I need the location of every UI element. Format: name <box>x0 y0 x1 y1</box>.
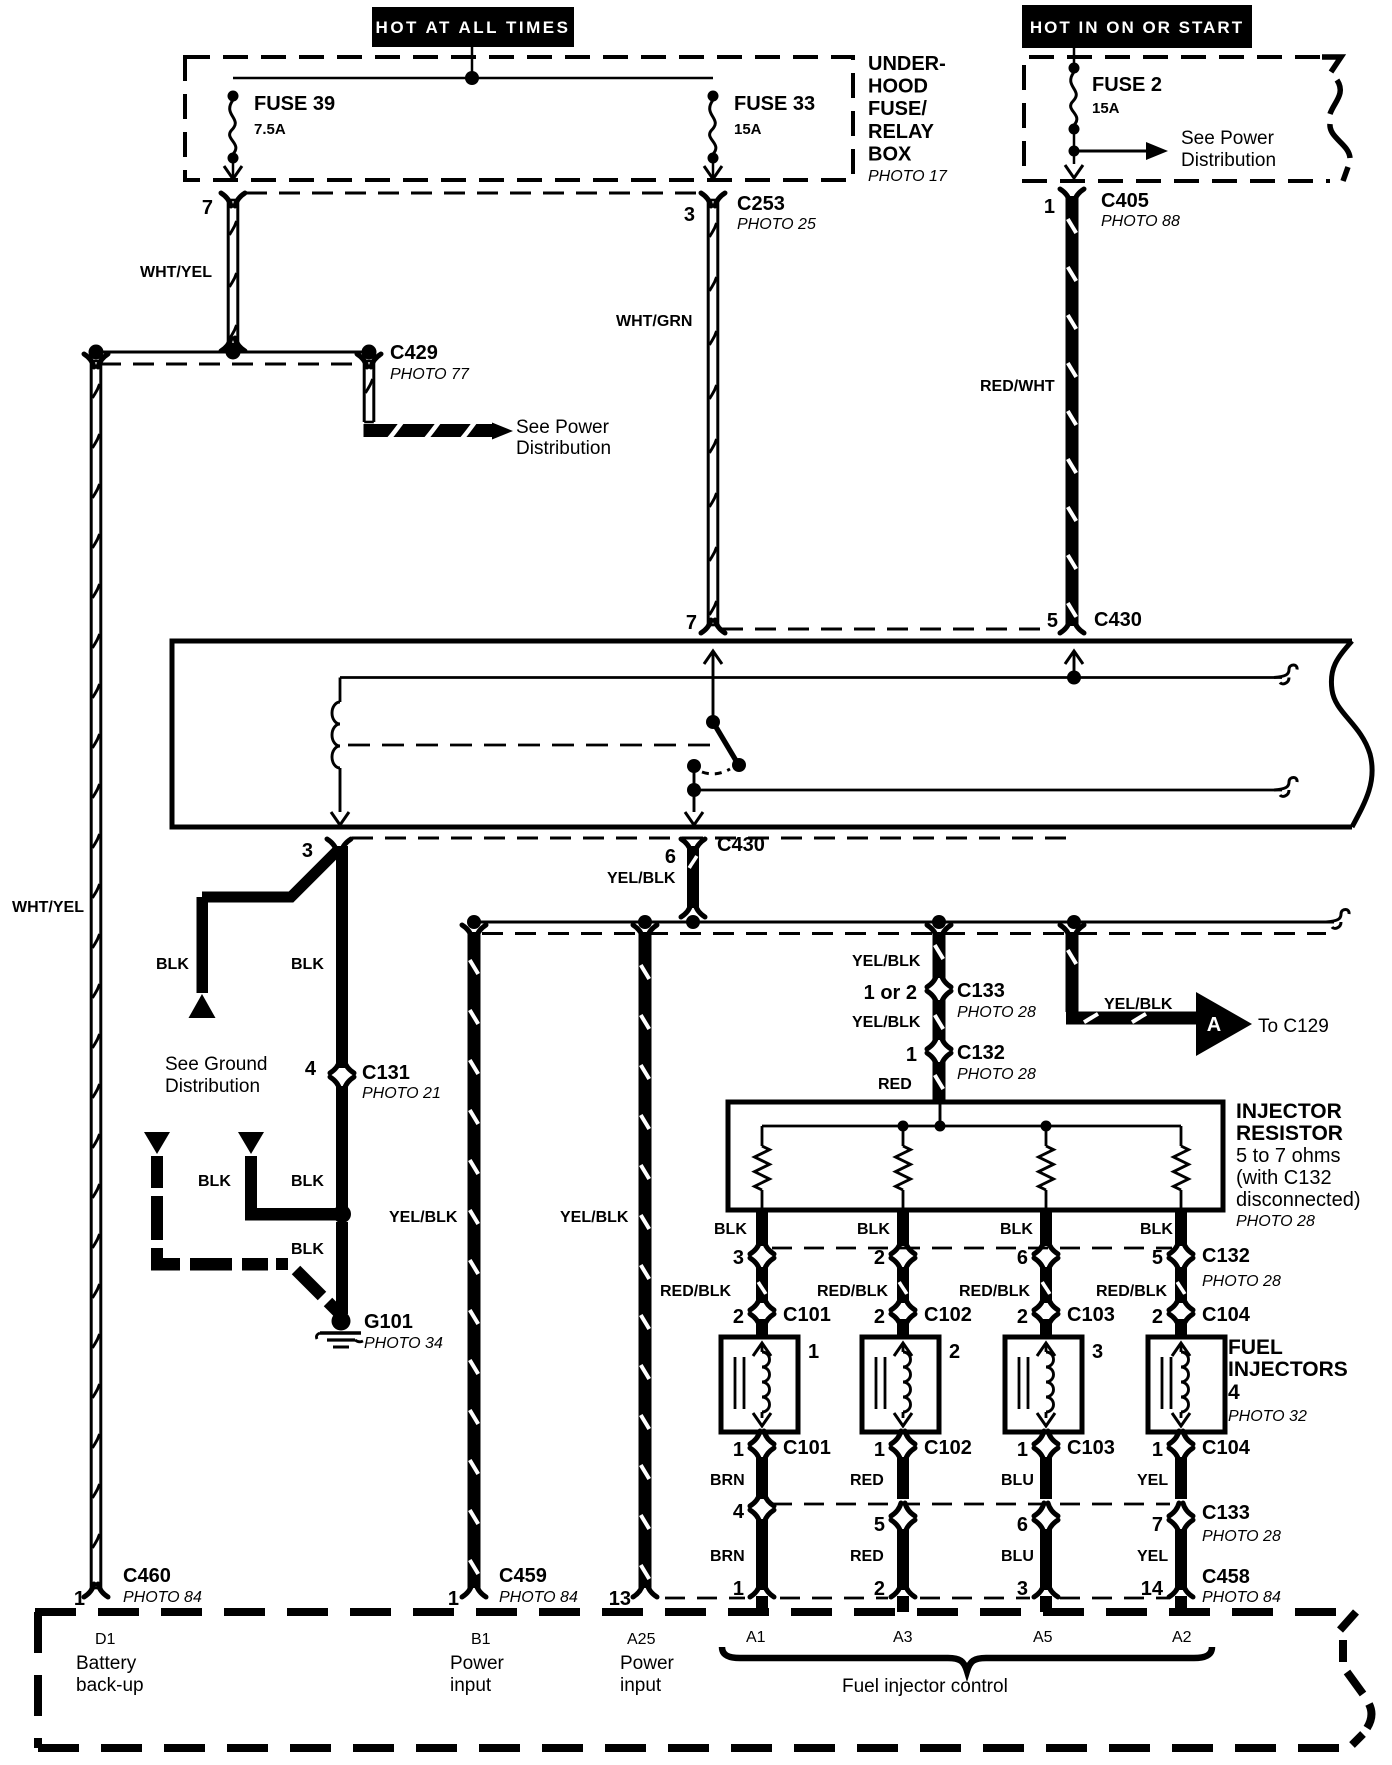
svg-text:14: 14 <box>1141 1578 1164 1600</box>
svg-text:PHOTO 84: PHOTO 84 <box>1202 1589 1281 1606</box>
svg-text:7: 7 <box>1152 1514 1163 1536</box>
svg-text:C459: C459 <box>499 1565 547 1587</box>
svg-text:disconnected): disconnected) <box>1236 1189 1361 1211</box>
svg-text:C102: C102 <box>924 1437 972 1459</box>
svg-text:PHOTO 34: PHOTO 34 <box>364 1335 443 1352</box>
svg-text:input: input <box>620 1675 662 1696</box>
svg-text:1: 1 <box>448 1588 459 1610</box>
svg-text:See Power: See Power <box>1181 128 1275 149</box>
svg-text:BLU: BLU <box>1001 1472 1034 1489</box>
svg-text:1: 1 <box>1044 196 1055 218</box>
svg-text:3: 3 <box>302 840 313 862</box>
svg-text:To C129: To C129 <box>1258 1016 1329 1037</box>
svg-text:RESISTOR: RESISTOR <box>1236 1122 1343 1145</box>
svg-text:C104: C104 <box>1202 1304 1251 1326</box>
svg-text:3: 3 <box>733 1247 744 1269</box>
svg-text:BRN: BRN <box>710 1548 745 1565</box>
svg-text:BLK: BLK <box>198 1173 231 1190</box>
svg-text:C102: C102 <box>924 1304 972 1326</box>
svg-text:C430: C430 <box>717 834 765 856</box>
svg-text:5: 5 <box>1152 1247 1163 1269</box>
svg-text:Distribution: Distribution <box>516 438 611 459</box>
svg-text:PHOTO 32: PHOTO 32 <box>1228 1408 1307 1425</box>
svg-text:FUEL: FUEL <box>1228 1336 1283 1359</box>
svg-text:6: 6 <box>665 846 676 868</box>
svg-text:YEL/BLK: YEL/BLK <box>560 1209 629 1226</box>
svg-text:6: 6 <box>1017 1514 1028 1536</box>
svg-text:HOT IN ON OR START: HOT IN ON OR START <box>1030 18 1244 37</box>
svg-text:BLK: BLK <box>291 956 324 973</box>
svg-text:FUSE 33: FUSE 33 <box>734 93 815 115</box>
svg-text:PHOTO 28: PHOTO 28 <box>957 1066 1036 1083</box>
svg-text:6: 6 <box>1017 1247 1028 1269</box>
svg-text:Distribution: Distribution <box>165 1076 260 1097</box>
svg-text:C429: C429 <box>390 342 438 364</box>
svg-text:YEL: YEL <box>1137 1472 1168 1489</box>
svg-text:2: 2 <box>949 1341 960 1363</box>
svg-text:C101: C101 <box>783 1304 831 1326</box>
svg-text:4: 4 <box>733 1501 745 1523</box>
svg-text:1: 1 <box>874 1439 885 1461</box>
svg-text:A5: A5 <box>1033 1629 1053 1646</box>
svg-text:D1: D1 <box>95 1631 116 1648</box>
svg-text:4: 4 <box>305 1058 317 1080</box>
svg-text:PHOTO 77: PHOTO 77 <box>390 366 470 383</box>
svg-text:C133: C133 <box>957 980 1005 1002</box>
svg-text:RED/BLK: RED/BLK <box>1096 1283 1168 1300</box>
svg-text:FUSE 2: FUSE 2 <box>1092 74 1162 96</box>
svg-text:C101: C101 <box>783 1437 831 1459</box>
svg-text:(with C132: (with C132 <box>1236 1167 1332 1189</box>
svg-text:BLK: BLK <box>291 1241 324 1258</box>
svg-text:RED/BLK: RED/BLK <box>959 1283 1031 1300</box>
svg-text:UNDER-: UNDER- <box>868 53 946 75</box>
svg-text:G101: G101 <box>364 1311 413 1333</box>
svg-text:15A: 15A <box>1092 100 1120 117</box>
svg-text:2: 2 <box>874 1247 885 1269</box>
svg-text:RED: RED <box>850 1472 884 1489</box>
svg-text:YEL: YEL <box>1137 1548 1168 1565</box>
svg-text:RED/WHT: RED/WHT <box>980 378 1055 395</box>
svg-text:BLK: BLK <box>857 1221 890 1238</box>
svg-text:2: 2 <box>733 1306 744 1328</box>
svg-text:7: 7 <box>686 612 697 634</box>
svg-text:INJECTORS: INJECTORS <box>1228 1358 1348 1381</box>
svg-text:2: 2 <box>874 1306 885 1328</box>
svg-text:3: 3 <box>1092 1341 1103 1363</box>
svg-text:Distribution: Distribution <box>1181 150 1276 171</box>
svg-text:1: 1 <box>906 1044 917 1066</box>
svg-text:A25: A25 <box>627 1631 656 1648</box>
svg-text:A3: A3 <box>893 1629 913 1646</box>
svg-text:A2: A2 <box>1172 1629 1192 1646</box>
svg-text:YEL/BLK: YEL/BLK <box>852 953 921 970</box>
svg-text:C103: C103 <box>1067 1437 1115 1459</box>
svg-text:15A: 15A <box>734 121 762 138</box>
svg-text:BLU: BLU <box>1001 1548 1034 1565</box>
svg-text:PHOTO 84: PHOTO 84 <box>123 1589 202 1606</box>
svg-text:5: 5 <box>874 1514 885 1536</box>
svg-text:PHOTO 84: PHOTO 84 <box>499 1589 578 1606</box>
svg-text:1: 1 <box>1017 1439 1028 1461</box>
svg-text:1: 1 <box>74 1588 85 1610</box>
svg-text:YEL/BLK: YEL/BLK <box>1104 996 1173 1013</box>
svg-text:BRN: BRN <box>710 1472 745 1489</box>
svg-text:7.5A: 7.5A <box>254 121 286 138</box>
svg-text:1: 1 <box>733 1439 744 1461</box>
svg-text:WHT/YEL: WHT/YEL <box>140 264 212 281</box>
svg-text:13: 13 <box>609 1588 631 1610</box>
svg-text:PHOTO 28: PHOTO 28 <box>1236 1213 1315 1230</box>
svg-text:C133: C133 <box>1202 1502 1250 1524</box>
svg-text:1: 1 <box>808 1341 819 1363</box>
svg-text:C131: C131 <box>362 1062 410 1084</box>
svg-text:1: 1 <box>733 1578 744 1600</box>
svg-text:2: 2 <box>1152 1306 1163 1328</box>
svg-text:1 or 2: 1 or 2 <box>864 982 917 1004</box>
svg-text:2: 2 <box>874 1578 885 1600</box>
svg-text:Power: Power <box>450 1653 505 1674</box>
svg-text:C405: C405 <box>1101 190 1149 212</box>
svg-text:Power: Power <box>620 1653 675 1674</box>
svg-text:FUSE 39: FUSE 39 <box>254 93 335 115</box>
svg-text:INJECTOR: INJECTOR <box>1236 1100 1342 1123</box>
svg-text:2: 2 <box>1017 1306 1028 1328</box>
svg-text:BLK: BLK <box>1140 1221 1173 1238</box>
svg-text:5 to 7 ohms: 5 to 7 ohms <box>1236 1145 1341 1167</box>
svg-text:A: A <box>1207 1014 1221 1036</box>
svg-text:C103: C103 <box>1067 1304 1115 1326</box>
svg-text:input: input <box>450 1675 492 1696</box>
svg-text:BLK: BLK <box>291 1173 324 1190</box>
svg-text:RED: RED <box>878 1076 912 1093</box>
svg-text:RELAY: RELAY <box>868 121 935 143</box>
svg-text:C253: C253 <box>737 193 785 215</box>
svg-text:1: 1 <box>1152 1439 1163 1461</box>
svg-text:FUSE/: FUSE/ <box>868 98 927 120</box>
svg-text:3: 3 <box>1017 1578 1028 1600</box>
svg-text:YEL/BLK: YEL/BLK <box>389 1209 458 1226</box>
svg-text:RED/BLK: RED/BLK <box>817 1283 889 1300</box>
svg-text:C132: C132 <box>957 1042 1005 1064</box>
svg-text:B1: B1 <box>471 1631 491 1648</box>
svg-text:PHOTO 28: PHOTO 28 <box>1202 1273 1281 1290</box>
svg-text:BLK: BLK <box>1000 1221 1033 1238</box>
svg-text:C132: C132 <box>1202 1245 1250 1267</box>
svg-text:RED/BLK: RED/BLK <box>660 1283 732 1300</box>
svg-text:PHOTO 28: PHOTO 28 <box>957 1004 1036 1021</box>
svg-text:A1: A1 <box>746 1629 766 1646</box>
svg-text:Battery: Battery <box>76 1653 137 1674</box>
svg-text:3: 3 <box>684 204 695 226</box>
svg-text:C458: C458 <box>1202 1566 1250 1588</box>
svg-text:BLK: BLK <box>714 1221 747 1238</box>
svg-text:PHOTO 17: PHOTO 17 <box>868 168 948 185</box>
svg-text:back-up: back-up <box>76 1675 144 1696</box>
svg-text:WHT/GRN: WHT/GRN <box>616 313 692 330</box>
svg-text:BLK: BLK <box>156 956 189 973</box>
svg-text:C104: C104 <box>1202 1437 1251 1459</box>
svg-text:PHOTO 21: PHOTO 21 <box>362 1085 441 1102</box>
svg-text:WHT/YEL: WHT/YEL <box>12 899 84 916</box>
svg-text:RED: RED <box>850 1548 884 1565</box>
svg-text:See Power: See Power <box>516 417 610 438</box>
svg-text:PHOTO 88: PHOTO 88 <box>1101 213 1180 230</box>
svg-text:HOOD: HOOD <box>868 76 928 98</box>
svg-text:PHOTO 25: PHOTO 25 <box>737 216 816 233</box>
svg-text:PHOTO 28: PHOTO 28 <box>1202 1528 1281 1545</box>
svg-text:BOX: BOX <box>868 143 912 165</box>
svg-text:C430: C430 <box>1094 609 1142 631</box>
svg-text:YEL/BLK: YEL/BLK <box>607 870 676 887</box>
svg-text:4: 4 <box>1228 1381 1240 1404</box>
svg-text:YEL/BLK: YEL/BLK <box>852 1014 921 1031</box>
svg-text:Fuel injector control: Fuel injector control <box>842 1676 1008 1697</box>
svg-text:7: 7 <box>202 197 213 219</box>
svg-text:See Ground: See Ground <box>165 1054 267 1075</box>
svg-text:HOT AT ALL TIMES: HOT AT ALL TIMES <box>376 18 571 37</box>
svg-text:5: 5 <box>1047 610 1058 632</box>
svg-text:C460: C460 <box>123 1565 171 1587</box>
